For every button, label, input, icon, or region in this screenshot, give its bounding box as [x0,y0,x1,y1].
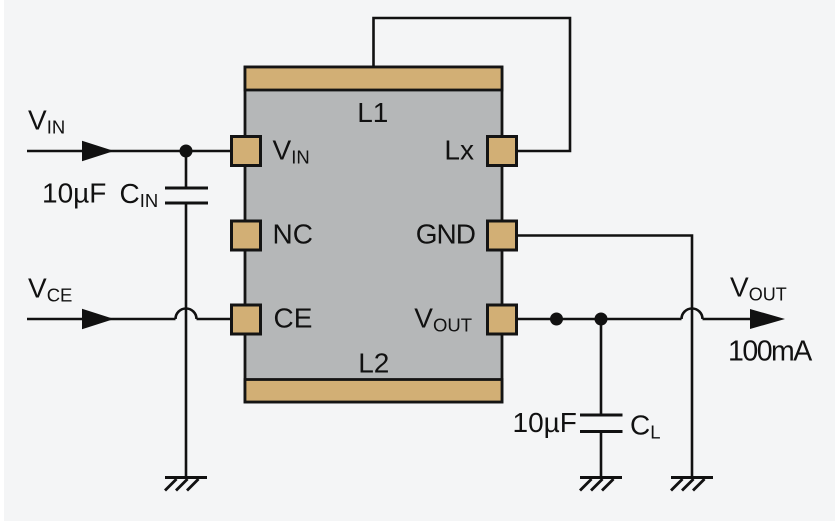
wire VOUT pin to hop [517,318,682,321]
svg-text:10µF: 10µF [42,178,106,209]
svg-text:100mA: 100mA [728,336,812,368]
ground (GND pin) [671,478,713,491]
svg-text:10µF: 10µF [513,407,577,438]
IC U1 top land pad [245,67,502,90]
wire VCE input left [27,318,176,321]
IC U1 body [245,67,502,402]
wire CIN to ground [185,203,188,477]
capacitor CL [580,415,623,432]
pin GND [488,221,517,250]
wire VCE to CE pin [197,318,232,321]
junction node VOUT a [550,313,563,326]
svg-text:GND: GND [416,219,475,250]
wire VIN input [27,150,231,153]
junction node VOUT / CL [595,313,608,326]
pin VOUT [488,305,517,334]
output arrow VOUT [750,309,785,329]
ground (CL) [580,478,622,491]
wire CL to ground [600,432,603,477]
capacitor CIN [165,188,208,203]
svg-text:L2: L2 [358,348,389,379]
IC U1 bottom land pad [245,380,502,403]
svg-text:NC: NC [273,219,313,250]
pin Lx [488,137,517,166]
svg-text:Lx: Lx [444,134,474,165]
junction node VIN / CIN [180,145,193,158]
wire Lx feedback loop [374,18,571,151]
input arrow VCE [82,309,114,329]
wire VOUT output [703,318,761,321]
wire GND pin to ground [517,236,692,477]
svg-text:L1: L1 [357,97,388,128]
wire CL top [600,319,603,415]
svg-text:CE: CE [274,303,313,334]
wire hop VOUT over GND wire [682,309,703,320]
pin NC [232,221,261,250]
input arrow VIN [82,141,114,161]
wire hop VCE over CIN ground wire [176,309,197,320]
pin VIN [232,137,261,166]
pin CE [232,305,261,334]
ground (CIN) [165,478,207,491]
wire CIN top [185,151,188,188]
